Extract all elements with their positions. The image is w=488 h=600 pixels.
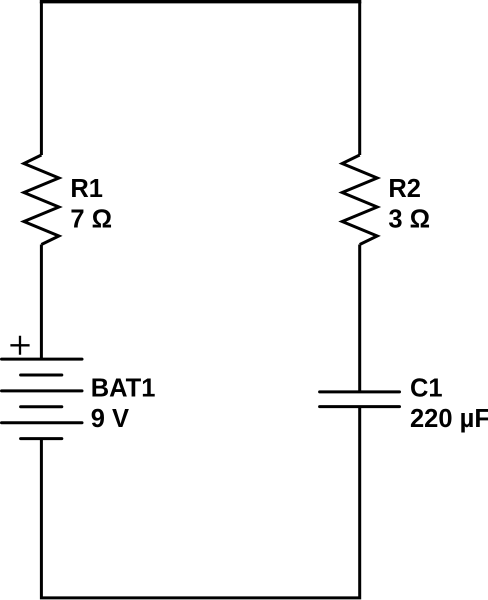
svg-text:C1: C1 bbox=[410, 374, 443, 402]
svg-text:3 Ω: 3 Ω bbox=[388, 205, 430, 233]
wire: top-right corner down to R2 top bbox=[358, 2, 361, 155]
wire: R1 top up to top-left corner bbox=[40, 2, 43, 155]
svg-text:220 µF: 220 µF bbox=[410, 405, 488, 433]
resistor R2 bbox=[342, 155, 377, 245]
svg-text:R2: R2 bbox=[388, 175, 421, 203]
wire R1 bottom to battery positive plate bbox=[40, 245, 43, 360]
capacitor C1 bbox=[320, 392, 400, 407]
svg-text:BAT1: BAT1 bbox=[91, 374, 156, 402]
svg-text:9 V: 9 V bbox=[91, 405, 129, 433]
svg-text:7 Ω: 7 Ω bbox=[70, 205, 112, 233]
battery BAT1 bbox=[2, 359, 83, 439]
wire battery negative to bottom-left corner, across bottom, up to C1 bottom plate bbox=[41, 407, 359, 598]
resistor R1 bbox=[24, 155, 59, 245]
wire: top horizontal bbox=[40, 0, 362, 3]
wire R2 bottom to C1 top plate bbox=[358, 245, 361, 392]
plus sign (battery polarity) bbox=[10, 336, 29, 355]
svg-text:R1: R1 bbox=[70, 175, 103, 203]
